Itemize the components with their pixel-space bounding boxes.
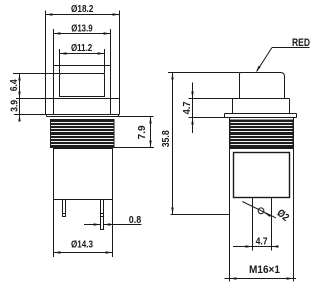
- svg-text:Ø14.3: Ø14.3: [71, 238, 93, 250]
- svg-text:6.4: 6.4: [8, 79, 20, 91]
- svg-text:0.8: 0.8: [129, 214, 142, 226]
- svg-text:Ø2: Ø2: [274, 207, 291, 224]
- svg-text:7.9: 7.9: [136, 125, 148, 139]
- svg-text:Ø13.9: Ø13.9: [71, 23, 92, 35]
- svg-text:4.7: 4.7: [256, 235, 268, 247]
- svg-text:RED: RED: [292, 37, 310, 49]
- svg-text:4.7: 4.7: [181, 101, 193, 114]
- svg-text:M16×1: M16×1: [249, 264, 280, 276]
- svg-text:35.8: 35.8: [160, 130, 172, 147]
- svg-text:Ø18.2: Ø18.2: [71, 3, 94, 15]
- svg-text:3.9: 3.9: [8, 100, 20, 112]
- svg-text:Ø11.2: Ø11.2: [71, 42, 92, 54]
